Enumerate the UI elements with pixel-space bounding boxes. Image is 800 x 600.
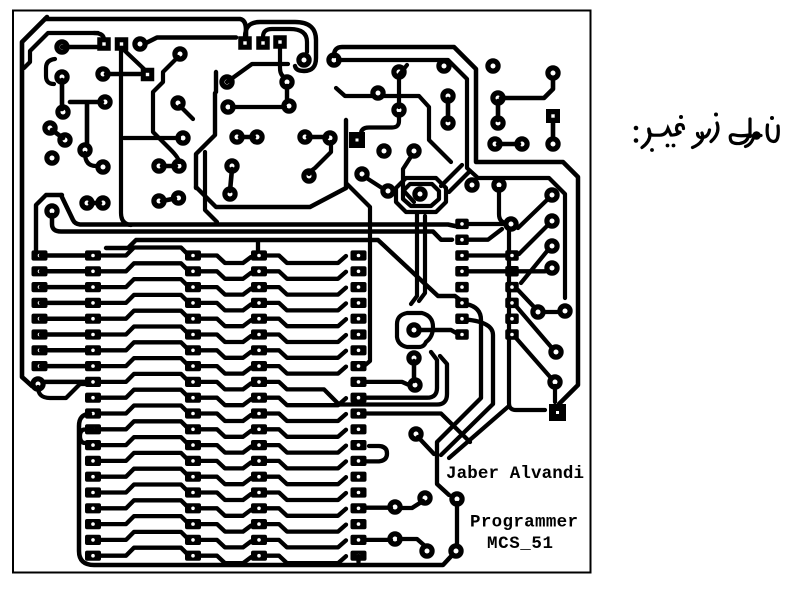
pad col358 r20: [351, 551, 367, 561]
wire: [106, 72, 140, 77]
pad col93 r4: [85, 298, 101, 308]
pad col193 r13: [185, 440, 201, 450]
pad: [171, 158, 186, 173]
pad col193 r8: [185, 361, 201, 371]
wire row15 C: [200, 477, 251, 485]
pad: [419, 543, 434, 558]
pad: [95, 159, 110, 174]
pad col193 r14: [185, 456, 201, 466]
pad: [544, 238, 559, 253]
pad: [557, 303, 572, 318]
pad col358 r4: [351, 298, 367, 308]
wire: [399, 539, 425, 546]
wire: [162, 199, 175, 202]
wire wrap y195: [36, 195, 62, 250]
pad col259 r19: [251, 535, 267, 545]
pad: [490, 115, 505, 130]
wire row3 D: [267, 287, 346, 295]
wire: [240, 135, 254, 140]
wire: [90, 201, 100, 206]
pad col39 r9: [30, 376, 45, 391]
pad: [224, 158, 239, 173]
wire row8 B: [99, 358, 187, 366]
pad: [376, 143, 391, 158]
wire: [230, 169, 232, 191]
wire row4 A: [41, 301, 88, 306]
wire row8 D: [267, 366, 346, 374]
pad: [44, 203, 59, 218]
pad col39 r3: [32, 282, 48, 292]
wire diag: [518, 290, 535, 308]
svg-text:MCS_51: MCS_51: [487, 534, 553, 554]
wire nested corner a: [441, 165, 462, 186]
pad: [222, 186, 237, 201]
wire row20 D: [267, 556, 346, 564]
wire vert A: [437, 304, 481, 495]
wire row14 D: [267, 461, 346, 469]
pad col259 r1: [251, 250, 267, 260]
wire cluster outline left: [196, 72, 216, 188]
wire row3 A: [41, 285, 88, 290]
wire: [397, 76, 401, 107]
pad col358 r9: [351, 377, 367, 387]
wire row1 C: [200, 256, 251, 264]
wire ring2 around pad: [396, 178, 446, 212]
wire bracket: [46, 59, 55, 84]
pad: [249, 129, 264, 144]
pad col358 r19: [351, 535, 367, 545]
wire row6 B: [99, 327, 187, 335]
wire row17 C: [200, 508, 251, 516]
wire left perimeter vertical: [22, 17, 47, 386]
pad: [175, 130, 190, 145]
wire: [455, 503, 459, 547]
pad J2-1: [238, 36, 252, 50]
wire row20 B: [99, 548, 187, 556]
wire row17 B: [99, 500, 187, 508]
pad: [387, 531, 402, 546]
wire row7 D: [267, 350, 346, 358]
wire T: [70, 102, 102, 146]
wire: [124, 136, 179, 140]
wire row8 C: [200, 366, 251, 374]
wire row15 B: [99, 469, 187, 477]
pad col358 r10: [351, 393, 367, 403]
pad col358 r16: [351, 487, 367, 497]
pad col193 r6: [185, 329, 201, 339]
pad col358 r14: [351, 456, 367, 466]
pad: [97, 94, 112, 109]
pad col259 r7: [251, 345, 267, 355]
pad col93 r5: [85, 314, 101, 324]
wire row11 C: [200, 414, 251, 422]
pad col193 r19: [185, 535, 201, 545]
wire block B S-curve: [80, 430, 93, 444]
pad col462 r4: [455, 266, 469, 277]
wire row18 B: [99, 516, 187, 524]
wire diag: [518, 199, 548, 228]
wire cluster outline right vert: [344, 120, 348, 188]
pad: [219, 74, 234, 89]
pad: [412, 186, 427, 201]
wire row20 C: [200, 556, 251, 564]
pad square filled: [349, 132, 365, 148]
wire: [469, 269, 545, 273]
wire row9 A: [44, 380, 88, 385]
pad: [449, 491, 464, 506]
wire bottom-left curve: [38, 384, 86, 398]
wire row12 B: [99, 421, 187, 429]
pad col358 r17: [351, 503, 367, 513]
wire row13 D: [267, 445, 346, 453]
wire row7 C: [200, 350, 251, 358]
wire row10 B: [99, 390, 187, 398]
pad header J1-3: [132, 36, 147, 51]
wire diag J1-2 to pad: [124, 50, 144, 69]
pad: [440, 115, 455, 130]
wire row10 C: [200, 398, 251, 406]
wire row6 A: [41, 332, 88, 337]
wire diag NE: [227, 64, 288, 82]
wire elbow: [403, 155, 414, 202]
pad col193 r11: [185, 408, 201, 418]
wire y106: [232, 105, 285, 109]
pad: [322, 130, 337, 145]
pad col462 r1: [455, 219, 469, 230]
pad col193 r1: [185, 250, 201, 260]
pad: [448, 543, 463, 558]
pad col358 r6: [351, 329, 367, 339]
wire: [62, 45, 97, 50]
wire to pad: [361, 114, 399, 138]
wire right outline B: [338, 60, 565, 298]
pad: [354, 166, 369, 181]
wire ring: [397, 313, 433, 347]
pad col93 r19: [85, 535, 101, 545]
pad col358 r13: [351, 440, 367, 450]
pad: [490, 90, 505, 105]
wire row3 C: [200, 287, 251, 295]
pad col462 r7: [455, 313, 469, 324]
pad: [54, 69, 69, 84]
pad col358 r7: [351, 345, 367, 355]
pad col462 r2: [455, 234, 469, 245]
wire: [162, 164, 176, 169]
wire diag: [516, 306, 552, 348]
wire U-turn col359: [366, 446, 387, 461]
wire: [501, 80, 553, 98]
wire from J1-1 top: [94, 33, 104, 40]
pad col193 r18: [185, 519, 201, 529]
wire diag: [519, 225, 548, 254]
wire row9 arm to donut: [366, 382, 409, 385]
pad: [417, 490, 432, 505]
pad col39 r6: [32, 329, 48, 339]
pad col462 r6: [455, 298, 469, 309]
wire: [412, 361, 417, 381]
wire J2-3 stub: [280, 48, 286, 78]
pad col93 r14: [85, 456, 101, 466]
wire: [551, 123, 556, 138]
pad col259 r18: [251, 519, 267, 529]
pad: [406, 322, 421, 337]
pad: [95, 195, 110, 210]
wire row9 B: [99, 374, 187, 382]
wire row12 C: [200, 429, 251, 437]
pad col93 r16: [85, 487, 101, 497]
wire row19 C: [200, 540, 251, 548]
pad col193 r2: [185, 266, 201, 276]
wire: [366, 506, 391, 510]
wire top perimeter: [45, 19, 246, 36]
pad: [391, 102, 406, 117]
pad: [79, 195, 94, 210]
pad col358 r2: [351, 266, 367, 276]
wire vert B: [441, 320, 493, 456]
wire: [467, 222, 504, 226]
pad col512 r6: [505, 298, 519, 309]
wire row11 D: [267, 414, 346, 422]
pad: [77, 142, 92, 157]
wire row19 D: [267, 540, 346, 548]
wire vertical x205: [205, 152, 217, 222]
pad: [44, 150, 59, 165]
pad col358 r18: [351, 519, 367, 529]
wire ring1 around pad: [403, 184, 439, 206]
wire row2 D: [267, 271, 346, 279]
pad col193 r4: [185, 298, 201, 308]
wire inner hook: [263, 29, 307, 52]
pad J2-2: [256, 36, 270, 50]
pad col93 r8: [85, 361, 101, 371]
wire: [446, 99, 451, 120]
wire diag: [365, 177, 385, 190]
wire row18 D: [267, 524, 346, 532]
wire row5 B: [99, 311, 187, 319]
wire nested corner b: [449, 171, 470, 192]
wire row14 C: [200, 461, 251, 469]
pad: [301, 168, 316, 183]
pad: [297, 129, 312, 144]
pad col512 r5: [505, 282, 519, 293]
wire J1-3 to header J2: [146, 38, 236, 44]
wire: [308, 135, 327, 140]
wire row4 C: [200, 303, 251, 311]
pad col39 r2: [32, 266, 48, 276]
pad col512 r4: [505, 266, 519, 277]
pad: [440, 88, 455, 103]
pad: [406, 143, 421, 158]
pad col93 r7: [85, 345, 101, 355]
pad: [406, 350, 421, 365]
pad: [229, 129, 244, 144]
wire row14 B: [99, 453, 187, 461]
wire: [52, 130, 63, 138]
wire row1 B: [99, 248, 187, 256]
wire: [496, 101, 501, 120]
pad col93 r15: [85, 472, 101, 482]
pad col193 r9: [185, 377, 201, 387]
pad col259 r13: [251, 440, 267, 450]
board outline: [13, 11, 591, 573]
pad col93 r18: [85, 519, 101, 529]
pad: [151, 158, 166, 173]
wire diag: [516, 338, 551, 378]
pad col93 r2: [85, 266, 101, 276]
pad col193 r15: [185, 472, 201, 482]
pad col259 r20: [251, 551, 267, 561]
wire row4 D: [267, 303, 346, 311]
wire: [553, 386, 557, 402]
pad: [380, 183, 395, 198]
pad: [464, 177, 479, 192]
pad col259 r15: [251, 472, 267, 482]
pad col39 r4: [32, 298, 48, 308]
pad col39 r1: [32, 250, 48, 260]
pad col259 r12: [251, 424, 267, 434]
pad col462 r8: [455, 329, 469, 340]
pad col259 r4: [251, 298, 267, 308]
pad col93 r13: [85, 440, 101, 450]
wire inner top-left outline: [24, 33, 98, 68]
pad: [170, 95, 185, 110]
wire outer hook: [245, 22, 316, 71]
wire row16 C: [200, 493, 251, 501]
svg-text:Jaber Alvandi: Jaber Alvandi: [446, 464, 584, 484]
wire: [60, 80, 65, 109]
pad: [491, 177, 506, 192]
pad: [546, 109, 560, 123]
pad col358 r8: [351, 361, 367, 371]
wire row15 D: [267, 477, 346, 485]
svg-text:Programmer: Programmer: [470, 513, 578, 533]
pad col259 r5: [251, 314, 267, 324]
wire row16 B: [99, 485, 187, 493]
wire: [499, 189, 506, 223]
wire bus1: [61, 195, 455, 226]
label Persian caption: namaye zire fibr: [634, 113, 779, 152]
pad col259 r2: [251, 266, 267, 276]
pad header J1-2: [115, 37, 129, 51]
pad: [544, 213, 559, 228]
pad col93 r17: [85, 503, 101, 513]
pad col93 r11: [85, 408, 101, 418]
wire: [366, 538, 391, 542]
wire row5 C: [200, 319, 251, 327]
wire row12 D: [267, 429, 346, 437]
pad col93 r10: [85, 393, 101, 403]
pad col259 r14: [251, 456, 267, 466]
pad col39 r7: [32, 345, 48, 355]
pad: [548, 344, 563, 359]
wire bus3: [106, 240, 463, 302]
pad: [220, 99, 235, 114]
pad col193 r7: [185, 345, 201, 355]
wire: [285, 86, 289, 102]
pad: [281, 98, 296, 113]
wire diag: [521, 250, 548, 283]
wire row13 C: [200, 445, 251, 453]
wire row17 D: [267, 508, 346, 516]
pad: [279, 74, 294, 89]
wire row8 A: [41, 364, 88, 369]
wire row6 C: [200, 335, 251, 343]
pad col259 r11: [251, 408, 267, 418]
wire row5 D: [267, 319, 346, 327]
wire row7 A: [41, 348, 88, 353]
wire block B rail: [79, 414, 456, 565]
pad col358 r12: [351, 424, 367, 434]
pad col512 r8: [505, 329, 519, 340]
pad col39 r8: [32, 361, 48, 371]
wire row10 D: [267, 398, 346, 406]
wire ring descender B: [419, 216, 425, 301]
pad col259 r16: [251, 487, 267, 497]
pad col259 r10: [251, 393, 267, 403]
pad col358 r3: [351, 282, 367, 292]
wire vert C: [509, 229, 545, 410]
pad: [141, 68, 155, 82]
wire row6 D: [267, 335, 346, 343]
wire: [543, 310, 560, 314]
pad: [391, 64, 406, 79]
pad: [54, 39, 69, 54]
wire row3 B: [99, 279, 187, 287]
pad col193 r16: [185, 487, 201, 497]
pad col193 r3: [185, 282, 201, 292]
wire cluster outline bottom: [196, 187, 346, 207]
pad: [387, 499, 402, 514]
pad col193 r12: [185, 424, 201, 434]
wire row16 D: [267, 493, 346, 501]
pad hook center: [296, 52, 311, 67]
pad col93 r1: [85, 250, 101, 260]
pad col193 r17: [185, 503, 201, 513]
pad: [487, 136, 502, 151]
pad: [172, 46, 187, 61]
pad: [326, 52, 341, 67]
pad col39 r5: [32, 314, 48, 324]
pad col259 r6: [251, 329, 267, 339]
pad: [485, 58, 500, 73]
wire stub col359 bottom: [356, 556, 360, 562]
wire stub col259: [256, 242, 260, 250]
wire row4 B: [99, 295, 187, 303]
wire row2 B: [99, 263, 187, 271]
wire ring arm: [421, 330, 458, 334]
pad header J1-1: [97, 37, 111, 51]
pad: [547, 374, 562, 389]
wire elbow: [85, 153, 96, 166]
pad col93 r12: [85, 424, 101, 434]
wire cluster inner outline: [336, 88, 451, 162]
pad J2-3: [273, 35, 287, 49]
pad square filled corner: [549, 404, 566, 421]
pad col358 r5: [351, 314, 367, 324]
pad: [151, 193, 166, 208]
wire row1 A: [41, 253, 88, 258]
pad: [545, 136, 560, 151]
wire row7 B: [99, 342, 187, 350]
wire diag: [418, 437, 434, 454]
wire row1 D: [267, 256, 346, 264]
pad col193 r20: [185, 551, 201, 561]
wire feeder L3: [366, 414, 470, 443]
wire diag C to Y: [449, 406, 509, 458]
pad: [407, 377, 422, 392]
wire cluster outline to band: [347, 184, 370, 366]
pad col512 r7: [505, 313, 519, 324]
